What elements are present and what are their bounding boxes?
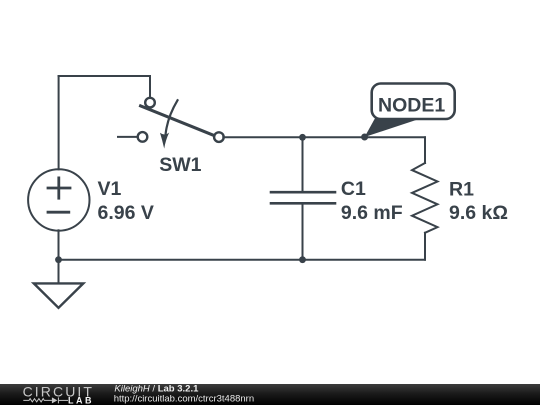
- wire top-right horizontal: [223, 136, 425, 138]
- CircuitLab logo LAB text: [68, 395, 94, 405]
- svg-text:NODE1: NODE1: [378, 94, 445, 116]
- footer bar: [0, 384, 540, 405]
- svg-text:http://circuitlab.com/ctrcr3t4: http://circuitlab.com/ctrcr3t488nrn: [114, 394, 254, 405]
- svg-text:9.6 mF: 9.6 mF: [341, 202, 403, 224]
- label V1: [98, 178, 122, 200]
- wire ground lead: [58, 260, 60, 284]
- CircuitLab logo diode symbol: [52, 397, 68, 403]
- label SW1: [159, 154, 201, 176]
- label C1: [341, 178, 366, 200]
- junction bottom (C1 tap): [299, 256, 306, 263]
- svg-text:9.6 kΩ: 9.6 kΩ: [449, 202, 508, 224]
- voltage source V1: [28, 169, 89, 230]
- svg-text:R1: R1: [449, 178, 474, 200]
- node NODE1 text: [378, 94, 445, 116]
- svg-text:SW1: SW1: [159, 154, 201, 176]
- wire bottom horizontal: [59, 259, 426, 261]
- node NODE1 callout bubble: [365, 84, 455, 138]
- value R1 9.6 kΩ: [449, 202, 508, 224]
- node NODE1 dot: [361, 134, 368, 141]
- wire left vertical (top wire to V1 + terminal): [58, 76, 60, 169]
- CircuitLab logo resistor symbol: [23, 399, 52, 402]
- svg-text:6.96 V: 6.96 V: [98, 202, 154, 224]
- label R1: [449, 178, 474, 200]
- junction bottom-left (V1/ground): [55, 256, 62, 263]
- footer url: [114, 394, 254, 405]
- ground: [34, 283, 84, 307]
- wire top-left horizontal: [59, 75, 150, 77]
- svg-text:V1: V1: [98, 178, 122, 200]
- switch SW1: [118, 98, 224, 149]
- junction top (C1 tap): [299, 134, 306, 141]
- footer title KileighH / Lab 3.2.1: [114, 384, 199, 395]
- capacitor C1: [271, 137, 335, 259]
- wire SW1 top lead: [149, 76, 151, 98]
- svg-text:LAB: LAB: [68, 395, 94, 405]
- value V1 6.96 V: [98, 202, 154, 224]
- svg-text:C1: C1: [341, 178, 366, 200]
- value C1 9.6 mF: [341, 202, 403, 224]
- resistor R1: [412, 137, 438, 259]
- CircuitLab logo CIRCUIT text: [23, 384, 94, 400]
- wire V1 bottom lead: [58, 230, 60, 259]
